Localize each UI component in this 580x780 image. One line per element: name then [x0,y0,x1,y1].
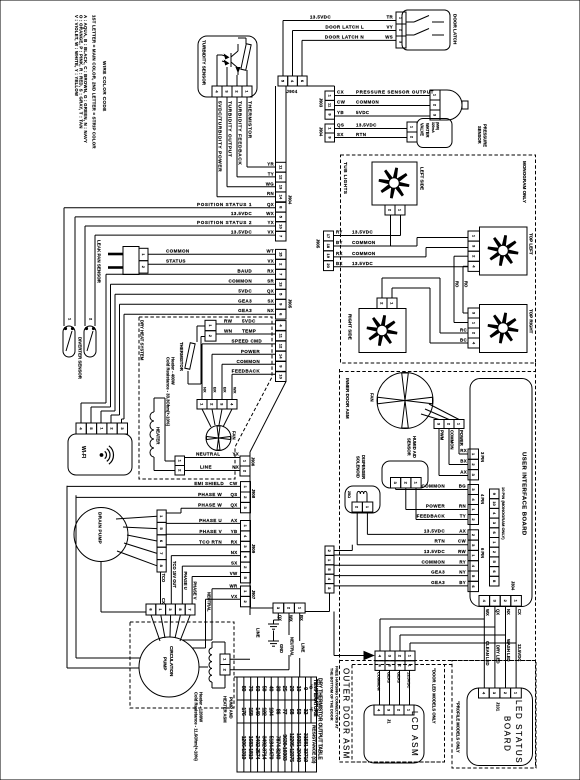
svg-text:GEA3: GEA3 [238,308,252,313]
svg-text:NX: NX [232,465,239,470]
svg-text:DOOR LATCH N: DOOR LATCH N [325,34,364,39]
svg-text:RY: RY [459,559,466,564]
svg-text:RESISTANCE (Ω): RESISTANCE (Ω) [311,725,317,764]
svg-text:WN: WN [224,329,233,334]
svg-text:RW: RW [458,549,466,554]
svg-text:THERMISTOR: THERMISTOR [247,101,253,139]
svg-text:VX: VX [231,594,238,599]
svg-text:5VDC: 5VDC [356,110,370,115]
svg-text:7874-8240: 7874-8240 [274,736,280,760]
svg-text:J909: J909 [251,544,256,554]
svg-text:6 PIN: 6 PIN [480,548,485,558]
svg-text:13.5VDC: 13.5VDC [424,549,445,554]
svg-text:122: 122 [261,707,267,715]
svg-text:PRESSURE: PRESSURE [483,124,488,147]
svg-text:12: 12 [278,344,283,349]
svg-text:EMI SHIELD: EMI SHIELD [194,481,224,486]
svg-text:GEA3: GEA3 [238,298,252,303]
svg-text:THE BOTTOM OF THE DOOR: THE BOTTOM OF THE DOOR [330,668,334,721]
svg-text:COMMON: COMMON [352,240,376,245]
svg-text:5VDC/TURBIDITY POWER: 5VDC/TURBIDITY POWER [217,101,223,172]
svg-text:SX: SX [337,132,344,137]
svg-text:NY: NY [459,570,466,575]
svg-text:"DOOR LED MODELS ONLY: "DOOR LED MODELS ONLY [432,668,437,724]
svg-text:158: 158 [247,707,253,715]
svg-text:YR: YR [267,162,274,167]
svg-text:1ST LETTER = MAIN COLOR, 2ND L: 1ST LETTER = MAIN COLOR, 2ND LETTER = ST… [92,15,97,149]
svg-text:5184-5470: 5184-5470 [268,736,274,760]
svg-text:DRY THERMISTOR OUTPUT TABLE: DRY THERMISTOR OUTPUT TABLE [317,678,323,760]
svg-text:LCD ASM: LCD ASM [410,711,419,757]
svg-text:FAN: FAN [232,431,237,440]
svg-text:TCO: TCO [161,574,166,583]
svg-text:TY: TY [268,171,274,176]
svg-text:CX: CX [337,90,344,95]
svg-text:J904: J904 [286,89,297,94]
svg-text:SOLENOID: SOLENOID [356,456,361,478]
svg-text:TOP RIGHT: TOP RIGHT [529,309,534,334]
svg-text:12: 12 [278,175,283,180]
svg-text:60: 60 [254,686,260,692]
svg-text:TURBIDITY FEEDBACK: TURBIDITY FEEDBACK [237,101,243,165]
svg-text:RTN: RTN [435,539,446,544]
svg-text:2402-2574: 2402-2574 [254,736,260,760]
svg-text:PRESSURE SENSOR OUTPUT: PRESSURE SENSOR OUTPUT [356,90,434,95]
svg-text:DRY LED: DRY LED [496,645,501,664]
svg-text:BC: BC [460,338,468,343]
svg-text:BY: BY [459,580,466,585]
svg-text:NX: NX [506,609,511,615]
svg-text:°F: °F [308,707,313,712]
svg-text:PHASE U: PHASE U [199,518,222,523]
svg-text:WATER: WATER [425,123,430,138]
svg-text:13.5VDC: 13.5VDC [356,123,377,128]
svg-text:DISPENSER: DISPENSER [361,455,366,479]
svg-text:PHASE W: PHASE W [198,503,222,508]
svg-text:CLEAN LED: CLEAN LED [485,641,490,666]
svg-text:RIGHT SIDE: RIGHT SIDE [348,314,353,340]
svg-text:31581-33719: 31581-33719 [302,733,308,762]
svg-text:J304: J304 [511,581,516,591]
svg-text:DRY HEAT SYSTEM: DRY HEAT SYSTEM [140,320,145,361]
svg-text:CX: CX [161,598,166,604]
svg-text:BY: BY [336,240,343,245]
svg-text:20: 20 [288,686,294,692]
svg-text:J903: J903 [319,98,324,108]
svg-text:J1: J1 [387,719,392,724]
svg-text:RX: RX [460,448,467,453]
svg-text:VALVE: VALVE [420,123,425,136]
svg-text:25: 25 [281,686,287,692]
svg-text:GEA3: GEA3 [431,570,445,575]
svg-text:TEMP: TEMP [242,329,256,334]
svg-text:LED STATUS: LED STATUS [514,700,523,764]
svg-text:YB: YB [337,110,344,115]
svg-text:COMMON: COMMON [449,430,454,450]
svg-text:TY: TY [460,514,466,519]
svg-text:50: 50 [261,686,267,692]
svg-text:CW: CW [229,481,238,486]
svg-text:13.5VDC: 13.5VDC [424,528,445,533]
svg-text:COMMON: COMMON [236,359,260,364]
svg-text:PWM: PWM [440,430,445,441]
svg-text:OUTER DOOR ASM: OUTER DOOR ASM [342,668,351,760]
svg-text:NX: NX [231,550,238,555]
svg-text:FAN: FAN [370,393,375,402]
svg-text:40: 40 [268,686,274,692]
svg-text:AX: AX [231,518,238,523]
svg-text:J904: J904 [288,195,293,205]
svg-text:20: 20 [326,263,331,268]
svg-text:V : VIOLET, W : WHITE, Y : YEL: V : VIOLET, W : WHITE, Y : YELLOW [74,15,79,97]
svg-text:HEATER ASM: HEATER ASM [223,696,228,723]
svg-text:NX: NX [203,387,208,393]
svg-text:CX: CX [517,609,522,615]
svg-text:BAUD: BAUD [237,268,252,273]
svg-text:NX: NX [267,308,274,313]
svg-text:QX: QX [267,288,274,293]
svg-text:RX: RX [336,251,343,256]
svg-text:5VDC: 5VDC [242,319,256,324]
svg-text:RO: RO [464,281,469,288]
svg-text:70: 70 [247,686,253,692]
svg-text:SPEED CMD: SPEED CMD [232,338,263,343]
svg-text:SX: SX [231,561,238,566]
svg-text:QX: QX [267,202,274,207]
svg-text:14: 14 [278,354,283,359]
svg-text:J101: J101 [496,702,501,712]
svg-text:"PROFILE MODELS ONLY: "PROFILE MODELS ONLY [456,701,461,753]
svg-text:RX: RX [267,268,274,273]
svg-text:19: 19 [326,254,331,259]
svg-text:TURBIDITY SENSOR: TURBIDITY SENSOR [202,40,207,86]
svg-text:TUB LIGHTS: TUB LIGHTS [342,162,348,195]
svg-text:RX: RX [231,539,238,544]
svg-text:COMMON: COMMON [421,484,445,489]
svg-text:GEA3: GEA3 [431,580,445,585]
svg-text:QX: QX [496,609,501,615]
svg-text:THERMISTOR: THERMISTOR [179,342,184,372]
svg-text:14: 14 [278,195,283,200]
svg-text:DOOR LATCH L: DOOR LATCH L [325,25,364,30]
svg-text:BOARD: BOARD [503,716,512,752]
svg-text:WX: WX [485,609,490,616]
svg-text:77: 77 [281,709,287,715]
svg-text:PUMP AND: PUMP AND [229,697,234,719]
svg-text:QS: QS [337,123,344,128]
svg-text:13: 13 [278,282,283,287]
svg-text:°C: °C [308,684,313,690]
svg-text:(MW): (MW) [436,122,440,130]
svg-text:HEATER: HEATER [156,427,161,445]
svg-text:176: 176 [240,707,246,715]
svg-text:FEEDBACK: FEEDBACK [417,514,446,519]
svg-text:AX: AX [460,470,467,475]
svg-text:FREE HANGING CONNECTORS AT: FREE HANGING CONNECTORS AT [335,666,339,729]
svg-text:YX: YX [232,452,239,457]
svg-text:QX: QX [230,503,237,508]
svg-text:COMMON: COMMON [421,559,445,564]
svg-text:3492-3714: 3492-3714 [261,736,267,760]
svg-text:13.5VDC: 13.5VDC [517,644,522,661]
svg-text:13.5VDC: 13.5VDC [352,230,373,235]
svg-text:0: 0 [302,687,308,690]
svg-text:10: 10 [295,686,301,692]
svg-text:WG: WG [266,181,274,186]
svg-text:10: 10 [278,224,283,229]
svg-text:LINE: LINE [200,465,212,470]
svg-text:SR: SR [267,278,274,283]
svg-text:19351-20449: 19351-20449 [295,733,301,762]
svg-text:DRAIN PUMP: DRAIN PUMP [97,512,103,545]
svg-text:TCO 15V OUT: TCO 15V OUT [172,561,177,588]
svg-text:PHASE V: PHASE V [199,529,222,534]
svg-text:MONOGRAM ONLY: MONOGRAM ONLY [522,161,527,203]
svg-text:GND: GND [279,644,284,653]
svg-text:BX: BX [336,261,343,266]
svg-text:SENSOR: SENSOR [477,126,482,144]
svg-text:RTN: RTN [356,132,366,137]
svg-text:1206-1310: 1206-1310 [240,736,246,760]
svg-text:WR: WR [229,583,237,588]
svg-text:COMMON: COMMON [228,278,252,283]
svg-text:WIRE COLOR CODE: WIRE COLOR CODE [102,61,107,112]
svg-text:13.5VDC: 13.5VDC [310,15,331,20]
svg-text:BX: BX [213,387,218,393]
svg-text:18: 18 [326,244,331,249]
svg-text:YB: YB [231,529,238,534]
svg-text:RN: RN [267,191,274,196]
svg-text:BG: BG [459,484,467,489]
svg-text:WS: WS [385,34,393,39]
svg-text:VX: VX [267,258,274,263]
svg-text:RO: RO [455,281,460,288]
svg-text:320mA: 320mA [431,122,435,133]
svg-text:25Ω: 25Ω [347,491,351,498]
svg-text:COMMON: COMMON [352,251,376,256]
svg-text:POWER: POWER [241,349,260,354]
svg-text:TURBIDITY OUTPUT: TURBIDITY OUTPUT [227,101,233,157]
svg-text:J908: J908 [251,489,256,499]
svg-text:J907: J907 [251,590,256,600]
svg-text:J905: J905 [316,239,321,249]
svg-text:WASH LED: WASH LED [506,639,511,662]
svg-text:WI-FI: WI-FI [80,446,86,459]
svg-text:Cold Resistance - 33.3Ohm(+-10: Cold Resistance - 33.3Ohm(+-10%) [166,357,171,427]
svg-text:RY: RY [336,230,343,235]
svg-text:12205-12375: 12205-12375 [288,733,294,762]
svg-text:VX: VX [267,229,274,234]
svg-text:10: 10 [278,374,283,379]
svg-text:CW: CW [458,539,467,544]
svg-text:30: 30 [274,686,280,692]
svg-text:TOP LEFT: TOP LEFT [529,233,534,255]
svg-text:WX: WX [233,387,238,394]
svg-text:AX: AX [459,528,466,533]
svg-text:STATUS: STATUS [166,258,186,263]
svg-text:1683-1819: 1683-1819 [247,736,253,760]
svg-text:RN: RN [459,504,466,509]
svg-text:BX: BX [223,387,228,393]
svg-text:COMMON: COMMON [166,248,190,253]
svg-text:Cold Resistance - 11.5Ohm(+-10: Cold Resistance - 11.5Ohm(+-10%) [194,692,199,761]
svg-text:3 PIN: 3 PIN [480,452,485,462]
svg-text:NEUTRAL: NEUTRAL [290,637,295,657]
svg-text:YX: YX [267,220,274,225]
svg-text:NEUTRAL: NEUTRAL [196,452,220,457]
svg-text:13.5VDC: 13.5VDC [231,229,252,234]
svg-text:RC: RC [460,328,468,333]
svg-text:INNER DOOR ASM: INNER DOOR ASM [345,378,350,419]
svg-text:86: 86 [274,709,280,715]
svg-text:13.5VDC: 13.5VDC [231,211,252,216]
svg-text:DOOR LATCH: DOOR LATCH [453,14,458,45]
svg-text:80: 80 [240,686,246,692]
svg-text:13.5VDC: 13.5VDC [352,261,373,266]
svg-text:9630-10303: 9630-10303 [281,734,287,760]
svg-text:POWER: POWER [426,504,445,509]
svg-text:USER INTERFACE BOARD: USER INTERFACE BOARD [521,452,527,536]
svg-text:POSITION STATUS 2: POSITION STATUS 2 [197,220,252,225]
svg-text:10 PIN (MONOGRAM ONLY): 10 PIN (MONOGRAM ONLY) [501,487,506,540]
svg-text:32: 32 [302,709,308,715]
svg-text:J904: J904 [319,127,324,137]
svg-text:LEFT SIDE: LEFT SIDE [420,167,425,190]
svg-text:HUMID AID: HUMID AID [412,436,417,458]
svg-text:15: 15 [278,252,283,257]
svg-text:SENSOR: SENSOR [407,438,412,456]
svg-text:104: 104 [268,707,274,715]
svg-text:FEEDBACK: FEEDBACK [232,369,261,374]
svg-text:140: 140 [254,707,260,715]
svg-text:VW: VW [230,571,238,576]
svg-text:DIVERTER SENSOR: DIVERTER SENSOR [78,337,83,380]
svg-text:50: 50 [295,709,301,715]
svg-text:10: 10 [492,501,497,506]
svg-text:TR: TR [386,15,393,20]
svg-text:LINE: LINE [256,628,261,638]
svg-text:13: 13 [278,185,283,190]
svg-text:5VDC: 5VDC [238,288,252,293]
svg-text:QS: QS [230,492,237,497]
svg-text:TCO RTN: TCO RTN [199,539,222,544]
svg-text:RW: RW [224,319,233,324]
svg-text:NEUTRAL: NEUTRAL [206,592,211,612]
svg-text:VY: VY [386,25,393,30]
svg-text:PUMP: PUMP [163,657,168,670]
svg-text:CIRCULATION: CIRCULATION [169,646,174,677]
svg-text:COMMON: COMMON [356,100,379,105]
svg-text:LEAK PAN SENSOR: LEAK PAN SENSOR [97,240,102,284]
svg-text:BX: BX [460,459,467,464]
svg-text:PHASE U: PHASE U [183,572,188,590]
svg-text:17: 17 [326,234,331,239]
svg-text:4 PIN: 4 PIN [480,494,485,504]
svg-text:PHASE W: PHASE W [198,492,222,497]
svg-text:68: 68 [288,709,294,715]
svg-text:POWER: POWER [459,430,464,446]
svg-text:J906: J906 [251,457,256,467]
svg-text:CW: CW [337,100,346,105]
svg-text:WX: WX [266,211,274,216]
svg-text:J905: J905 [288,299,293,309]
svg-text:POSITION STATUS 1: POSITION STATUS 1 [197,202,252,207]
svg-text:LINE: LINE [300,643,305,653]
svg-text:SX: SX [267,298,274,303]
svg-text:WT: WT [266,248,274,253]
svg-text:PHASE V: PHASE V [193,582,198,600]
